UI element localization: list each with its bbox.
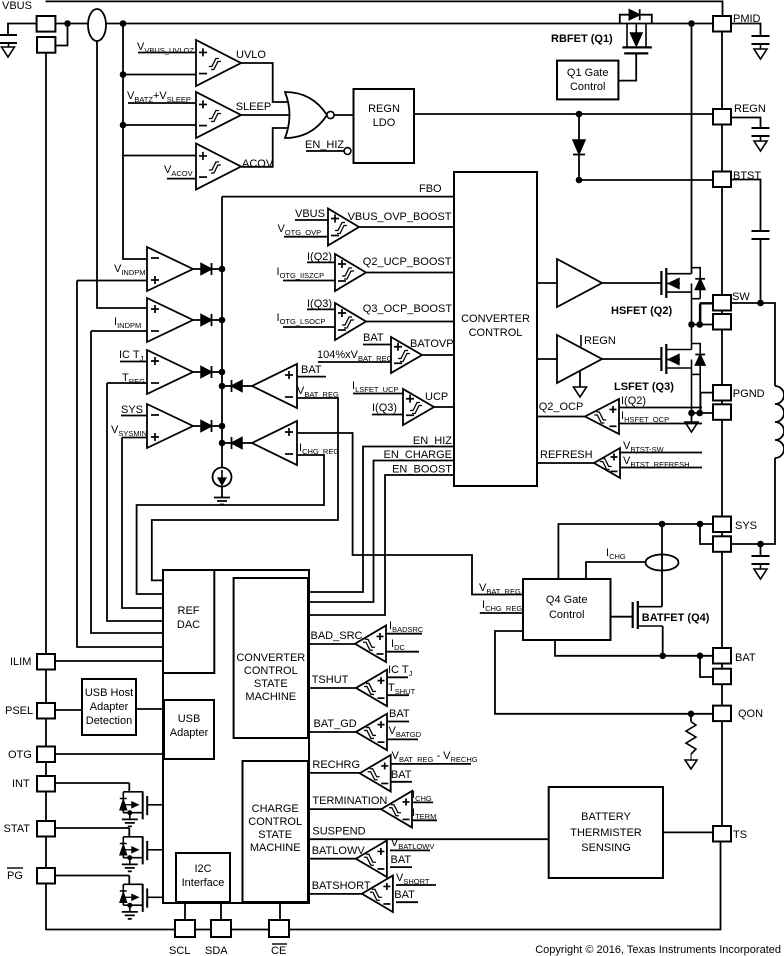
wire batgd - input <box>387 738 418 740</box>
svg-text:RBFET (Q1): RBFET (Q1) <box>551 33 613 45</box>
wire I_CHG_REG into Q4 <box>480 612 523 614</box>
svg-text:Control: Control <box>570 81 605 93</box>
ground current source <box>221 487 223 498</box>
wire REFRESH output <box>537 462 594 464</box>
node junction uvlo <box>120 71 127 78</box>
svg-text:EN_HIZ: EN_HIZ <box>305 139 344 151</box>
node junction q3 diode <box>696 410 703 417</box>
wire batgd + input <box>387 721 409 723</box>
transistor RBFET Q1 <box>620 15 630 24</box>
wire PMID-REGN link <box>721 32 723 110</box>
wire IINDPM - input <box>91 330 147 332</box>
svg-text:UVLO: UVLO <box>236 49 266 61</box>
node junction batfet <box>659 653 666 660</box>
wire VINDPM + input <box>77 280 147 282</box>
wire SW to inductor <box>731 303 775 386</box>
wire Q2_OCP output <box>537 416 585 418</box>
diode ICTJ to bus <box>193 371 201 373</box>
svg-text:SYS: SYS <box>735 520 757 532</box>
wire VBUS ovp + input <box>295 219 328 221</box>
diode ICHG amp to bus <box>222 442 232 444</box>
wire Q2_UCP_BOOST output <box>366 272 454 274</box>
diode REGN to BTST <box>578 114 580 140</box>
block Q4 Gate Control <box>523 579 611 640</box>
pin PGND pad1 <box>713 385 731 401</box>
wire SYS-BAT link <box>721 552 723 648</box>
node bus junction 2 <box>219 317 226 324</box>
svg-text:Q2_OCP: Q2_OCP <box>539 401 584 413</box>
wire BAT pads link <box>721 664 723 669</box>
wire TERMINATION output <box>308 808 381 810</box>
pin BTST pad <box>713 172 731 188</box>
pin BAT pad1 <box>713 648 731 664</box>
wire ucp - input <box>372 414 403 416</box>
wire SDA stub <box>220 903 222 920</box>
opamp BAT voltage loop amp <box>252 364 297 408</box>
pin SYS pad2 <box>713 536 731 552</box>
wire SLEEP - input <box>123 124 196 126</box>
wire SCL stub <box>184 902 186 920</box>
node bus junction 3 <box>219 369 226 376</box>
wire VBUS to input cap <box>8 24 37 36</box>
wire refresh + input <box>620 452 702 454</box>
wire BATOVP output <box>422 354 454 356</box>
svg-text:THERMISTER: THERMISTER <box>570 827 642 839</box>
current sense ellipse VBUS <box>88 9 106 41</box>
pin PMID pad <box>713 16 731 32</box>
wire tshut - input <box>387 694 409 696</box>
block REGN LDO <box>354 89 415 163</box>
ground LSFET driver <box>579 371 581 387</box>
wire q2ucp - input <box>283 280 335 282</box>
wire PSEL to USB host det <box>55 709 82 711</box>
pin QON pad <box>713 706 731 722</box>
wire UVLO output to NOR <box>241 63 289 102</box>
wire q3ocp - input <box>283 326 335 328</box>
wire q3ocp + input <box>307 308 335 310</box>
svg-text:Q3_OCP_BOOST: Q3_OCP_BOOST <box>363 303 453 315</box>
wire SYS pads link <box>721 532 723 536</box>
wire PGND node line <box>692 412 714 414</box>
wire left rail VBUS down and bottom border to TS <box>46 53 721 930</box>
comparator UVLO <box>196 40 241 86</box>
svg-text:SCL: SCL <box>169 945 190 956</box>
svg-text:CHARGE: CHARGE <box>252 803 299 815</box>
svg-text:CONVERTER: CONVERTER <box>461 313 530 325</box>
svg-text:Q4 Gate: Q4 Gate <box>546 594 588 606</box>
svg-text:STATE: STATE <box>254 678 288 690</box>
node junction bat bracket <box>697 653 704 660</box>
svg-text:FBO: FBO <box>419 183 442 195</box>
node junction qon <box>688 711 695 718</box>
node junction sleep <box>120 122 127 129</box>
comparator BATOVP <box>391 337 422 373</box>
pin STAT pad <box>37 821 55 837</box>
block REF DAC <box>163 570 214 673</box>
svg-text:TERMINATION: TERMINATION <box>312 795 387 807</box>
wire BATSHORT output <box>308 893 362 895</box>
wire REGN LDO output to REGN pin <box>414 113 713 115</box>
wire SW-PGND link <box>721 330 723 386</box>
svg-text:CONTROL: CONTROL <box>244 665 298 677</box>
wire USB host det to USB adapter <box>136 708 164 710</box>
wire top border VBUS to PMID <box>46 1 723 16</box>
wire TREG - input <box>107 382 147 384</box>
svg-text:PG: PG <box>7 870 23 882</box>
wire q2 diode top vertical <box>699 304 701 325</box>
svg-text:TSHUT: TSHUT <box>312 674 349 686</box>
wire RECHRG output <box>308 772 360 774</box>
wire termination + input <box>412 801 433 803</box>
wire UCP output <box>434 406 454 408</box>
wire ref bundle VSYSMIN <box>122 438 163 609</box>
svg-text:BAT: BAT <box>389 708 410 720</box>
comparator TERMINATION <box>381 791 412 828</box>
wire tshut + input <box>387 676 408 678</box>
wire batshort + input <box>396 884 436 886</box>
wire rechrg - input <box>391 781 412 783</box>
node bus junction 1 <box>219 266 226 273</box>
svg-text:DAC: DAC <box>177 619 200 631</box>
svg-text:USB Host: USB Host <box>85 687 133 699</box>
wire HS gate lead <box>602 282 661 284</box>
ground PGND arrow <box>691 413 693 422</box>
wire BTST line <box>579 179 713 181</box>
wire q2ocp - input <box>619 423 702 425</box>
block digital core outline <box>163 570 309 903</box>
node EN_HIZ bubble <box>344 148 351 155</box>
svg-text:LSFET (Q3): LSFET (Q3) <box>614 381 674 393</box>
node junction sys ichg <box>659 521 666 528</box>
svg-text:BATTERY: BATTERY <box>581 811 631 823</box>
wire ref bundle TREG <box>107 383 163 621</box>
svg-text:EN_BOOST: EN_BOOST <box>392 464 452 476</box>
svg-text:CONTROL: CONTROL <box>248 816 302 828</box>
wire ACOV + input <box>123 155 196 157</box>
wire STAT line <box>55 827 129 829</box>
wire PGND pad1 bracket <box>701 393 714 413</box>
wire vbus current sense down to IINDPM+ <box>97 41 147 308</box>
pin SYS pad1 <box>713 517 731 533</box>
svg-text:TS: TS <box>733 829 747 841</box>
wire batovp + input <box>363 344 391 346</box>
svg-text:CONVERTER: CONVERTER <box>236 652 305 664</box>
wire batovp - input <box>318 361 391 363</box>
wire SW pad1 bracket <box>701 303 714 325</box>
wire QON-TS link <box>721 721 723 826</box>
wire SLEEP + input <box>128 102 196 104</box>
wire badsrc - input <box>386 651 419 653</box>
wire SUSPEND net <box>308 838 549 840</box>
diode VINDPM to bus <box>193 268 201 270</box>
svg-text:SW: SW <box>732 291 750 303</box>
svg-text:Q1 Gate: Q1 Gate <box>567 67 609 79</box>
pin SW pad1 <box>713 295 731 311</box>
svg-text:I2C: I2C <box>194 863 211 875</box>
wire BAT_GD output <box>309 731 356 733</box>
pin VBUS pad1 <box>37 16 56 32</box>
svg-text:REGN: REGN <box>584 335 616 347</box>
comparator Q2_OCP <box>585 399 619 434</box>
wire EN_HIZ net <box>309 447 454 593</box>
svg-text:I(Q3): I(Q3) <box>307 298 332 310</box>
wire vbus divider down to comparators and VINDPM- <box>123 24 147 260</box>
node junction regn diode <box>576 111 583 118</box>
node junction sys bracket <box>697 521 704 528</box>
amplifier HSFET driver <box>557 259 602 307</box>
wire SW node line <box>692 324 714 326</box>
wire inductor to SYS <box>731 458 775 544</box>
svg-text:Adapter: Adapter <box>90 701 129 713</box>
svg-text:EN_HIZ: EN_HIZ <box>413 435 452 447</box>
pin OTG pad <box>37 747 55 763</box>
label REGN supply tick <box>580 335 582 347</box>
wire SYS pad2 bracket <box>700 524 713 544</box>
wire error bus <box>221 197 223 468</box>
transistor PG open-drain <box>128 876 130 885</box>
resistor QON pulldown <box>690 714 692 722</box>
comparator SLEEP <box>196 92 241 138</box>
svg-text:I(Q2): I(Q2) <box>307 251 332 263</box>
wire rechrg + input <box>391 763 471 765</box>
pin INT pad <box>37 776 55 792</box>
svg-text:REGN: REGN <box>368 103 400 115</box>
comparator Q3_OCP_BOOST <box>335 303 366 340</box>
svg-text:INT: INT <box>12 778 30 790</box>
wire BATLOWV output <box>308 858 356 860</box>
svg-text:BATOVP: BATOVP <box>410 338 454 350</box>
svg-text:STAT: STAT <box>4 823 31 835</box>
wire BTST-SW link <box>721 187 723 295</box>
wire PG line <box>55 875 129 877</box>
svg-text:BATSHORT: BATSHORT <box>312 880 371 892</box>
svg-text:BAT_GD: BAT_GD <box>314 718 357 730</box>
svg-text:BAT: BAT <box>391 854 412 866</box>
wire CE stub <box>279 902 281 920</box>
amplifier LSFET driver <box>557 335 602 383</box>
wire SYS rail to Q4 <box>558 524 713 580</box>
pin PG pad <box>37 868 55 884</box>
capacitor REGN bypass <box>731 118 761 129</box>
wire batlowv - input <box>390 866 412 868</box>
wire BAD_SRC output <box>309 643 355 645</box>
pin PSEL pad <box>37 703 55 719</box>
node junction sw cap <box>757 300 764 307</box>
capacitor PMID bypass <box>731 24 761 37</box>
svg-text:BAD_SRC: BAD_SRC <box>311 630 363 642</box>
node bus junction 5 <box>219 383 226 390</box>
svg-text:QON: QON <box>738 708 763 720</box>
svg-text:Control: Control <box>549 609 584 621</box>
pin PGND pad2 <box>713 404 731 420</box>
wire FBO from error bus <box>222 196 454 198</box>
svg-text:Copyright © 2016, Texas Instru: Copyright © 2016, Texas Instruments Inco… <box>535 944 781 956</box>
diode SYS to bus <box>193 425 201 427</box>
inductor output <box>775 386 784 458</box>
pin TS pad <box>713 826 731 842</box>
node bus junction 6 <box>219 440 226 447</box>
svg-text:BAT: BAT <box>301 364 322 376</box>
svg-text:STATE: STATE <box>258 829 292 841</box>
wire converter to LS driver <box>537 358 557 360</box>
wire ref bundle VINDPM <box>77 281 163 648</box>
pin SW pad2 <box>713 314 731 330</box>
svg-text:VBUS: VBUS <box>295 208 325 220</box>
wire OTG to USB adapter <box>55 753 164 755</box>
svg-text:HSFET (Q2): HSFET (Q2) <box>611 305 672 317</box>
svg-text:USB: USB <box>178 713 201 725</box>
svg-text:CE: CE <box>271 945 286 956</box>
pin ILIM pad <box>37 654 55 670</box>
wire VBUS pad2 bypass loop <box>55 24 67 46</box>
wire VBUS rail to PMID <box>55 23 713 25</box>
wire BAT-QON link <box>721 684 723 705</box>
wire REGN-BTST link <box>721 125 723 172</box>
diode BAT amp to bus <box>222 385 232 387</box>
wire ref bundle IINDPM <box>91 331 163 633</box>
wire UVLO + input <box>138 52 196 54</box>
pin VBUS pad2 <box>37 37 55 53</box>
opamp V_INDPM error amp <box>147 247 193 291</box>
block USB Adapter <box>164 700 214 759</box>
svg-text:MACHINE: MACHINE <box>250 842 301 854</box>
wire converter to HS driver <box>537 282 557 284</box>
svg-text:UCP: UCP <box>425 391 448 403</box>
svg-text:VBUS_OVP_BOOST: VBUS_OVP_BOOST <box>348 211 452 223</box>
wire SYS - input <box>121 415 147 417</box>
svg-text:REGN: REGN <box>734 103 766 115</box>
wire EN_CHARGE net <box>309 461 454 603</box>
transistor BATFET Q4 <box>632 602 634 628</box>
wire NOR output to REGN LDO <box>334 114 353 116</box>
comparator BAD_SRC <box>355 626 386 663</box>
wire BAT + input <box>297 376 326 378</box>
transistor HSFET Q2 <box>660 271 662 295</box>
comparator BATSHORT <box>362 876 393 913</box>
wire Q4 gate lead <box>611 616 633 618</box>
opamp SYS error amp <box>147 404 193 448</box>
block Q1 Gate Control <box>557 61 618 100</box>
block CHARGE CONTROL STATE MACHINE <box>243 761 309 902</box>
capacitor BTST bootstrap <box>731 180 761 232</box>
node junction q3 source <box>688 410 695 417</box>
opamp I_INDPM error amp <box>147 298 193 342</box>
comparator REFRESH <box>594 448 620 478</box>
block CONVERTER CONTROL STATE MACHINE <box>234 578 308 738</box>
transistor LSFET Q3 <box>660 347 662 371</box>
wire SW pads link <box>721 311 723 315</box>
comparator TSHUT <box>356 670 387 707</box>
pin REGN pad <box>713 109 731 125</box>
svg-text:I(Q3): I(Q3) <box>372 402 397 414</box>
wire BAT pad2 bracket <box>700 656 713 677</box>
svg-text:BATLOWV: BATLOWV <box>312 845 366 857</box>
svg-text:PSEL: PSEL <box>5 705 33 717</box>
pin CE pad <box>269 920 289 937</box>
svg-text:REFRESH: REFRESH <box>540 449 593 461</box>
wire UVLO - input <box>123 74 196 76</box>
svg-text:Interface: Interface <box>182 877 225 889</box>
node junction vbus sense <box>120 20 127 27</box>
svg-text:BAT: BAT <box>735 652 756 664</box>
svg-text:MACHINE: MACHINE <box>245 691 296 703</box>
comparator ACOV <box>196 144 241 190</box>
block BATTERY THERMISTER SENSING <box>549 787 663 878</box>
wire V_BAT_REG net <box>152 398 338 580</box>
wire VBUS ovp - input <box>284 236 328 238</box>
opamp ICHG current loop amp <box>252 421 297 465</box>
svg-text:BAT: BAT <box>391 769 412 781</box>
gate NOR sleep-logic <box>285 92 327 138</box>
wire ucp + input <box>353 393 403 395</box>
svg-text:BATFET (Q4): BATFET (Q4) <box>642 612 710 624</box>
wire ACOV output to NOR <box>241 128 289 167</box>
current source error bus <box>213 468 232 487</box>
svg-text:CONTROL: CONTROL <box>469 327 523 339</box>
svg-text:ILIM: ILIM <box>10 656 31 668</box>
svg-text:PGND: PGND <box>733 388 765 400</box>
svg-text:SYS: SYS <box>121 404 143 416</box>
node junction q2 source <box>688 321 695 328</box>
pin SDA pad <box>211 920 231 937</box>
wire ILIM to REF DAC <box>55 660 163 662</box>
wire INT line <box>55 782 129 784</box>
wire termination - input <box>412 819 437 821</box>
svg-text:SENSING: SENSING <box>581 842 631 854</box>
comparator RECHRG <box>360 755 391 792</box>
wire BAT line <box>555 640 713 656</box>
wire q2ucp + input <box>307 261 335 263</box>
node junction btst <box>576 177 583 184</box>
wire refresh - input <box>620 467 702 469</box>
current sense ellipse ICHG <box>646 555 679 571</box>
wire badsrc + input <box>386 633 422 635</box>
capacitor VBUS input <box>0 35 17 43</box>
node junction q2 diode <box>696 321 703 328</box>
wire PGND pads link <box>721 401 723 405</box>
wire q2ocp + input <box>619 407 702 409</box>
transistor STAT open-drain <box>128 828 130 837</box>
wire I_CHG_REG net <box>137 455 324 594</box>
svg-text:SLEEP: SLEEP <box>236 101 271 113</box>
svg-text:Detection: Detection <box>86 715 132 727</box>
wire BATFET source to BAT <box>662 626 664 656</box>
node bus junction 4 <box>219 423 226 430</box>
wire ICTJ + input <box>120 361 147 363</box>
wire PMID vertical to Q2 drain <box>691 24 693 274</box>
opamp ICTJ error amp <box>147 350 193 394</box>
wire PGND-SYS link <box>721 420 723 517</box>
svg-text:Adapter: Adapter <box>170 727 209 739</box>
node junction Q1 drain <box>688 20 695 27</box>
node junction sys cap <box>757 541 764 548</box>
svg-text:Q2_UCP_BOOST: Q2_UCP_BOOST <box>363 256 452 268</box>
wire EN_BOOST net <box>309 475 454 615</box>
svg-text:VBUS: VBUS <box>2 0 32 12</box>
svg-text:OTG: OTG <box>8 749 32 761</box>
wire TSHUT output <box>309 687 356 689</box>
ground VBUS cap <box>2 47 15 57</box>
svg-text:RECHRG: RECHRG <box>312 759 360 771</box>
svg-text:LDO: LDO <box>373 117 396 129</box>
wire ACOV - input <box>167 178 196 180</box>
wire QON net <box>495 631 713 714</box>
comparator UCP <box>403 389 434 425</box>
comparator BATLOWV <box>356 841 387 878</box>
block USB Host Adapter Detection <box>82 679 136 735</box>
svg-text:BAT: BAT <box>363 332 384 344</box>
wire SYS to BATFET drain <box>661 524 663 607</box>
